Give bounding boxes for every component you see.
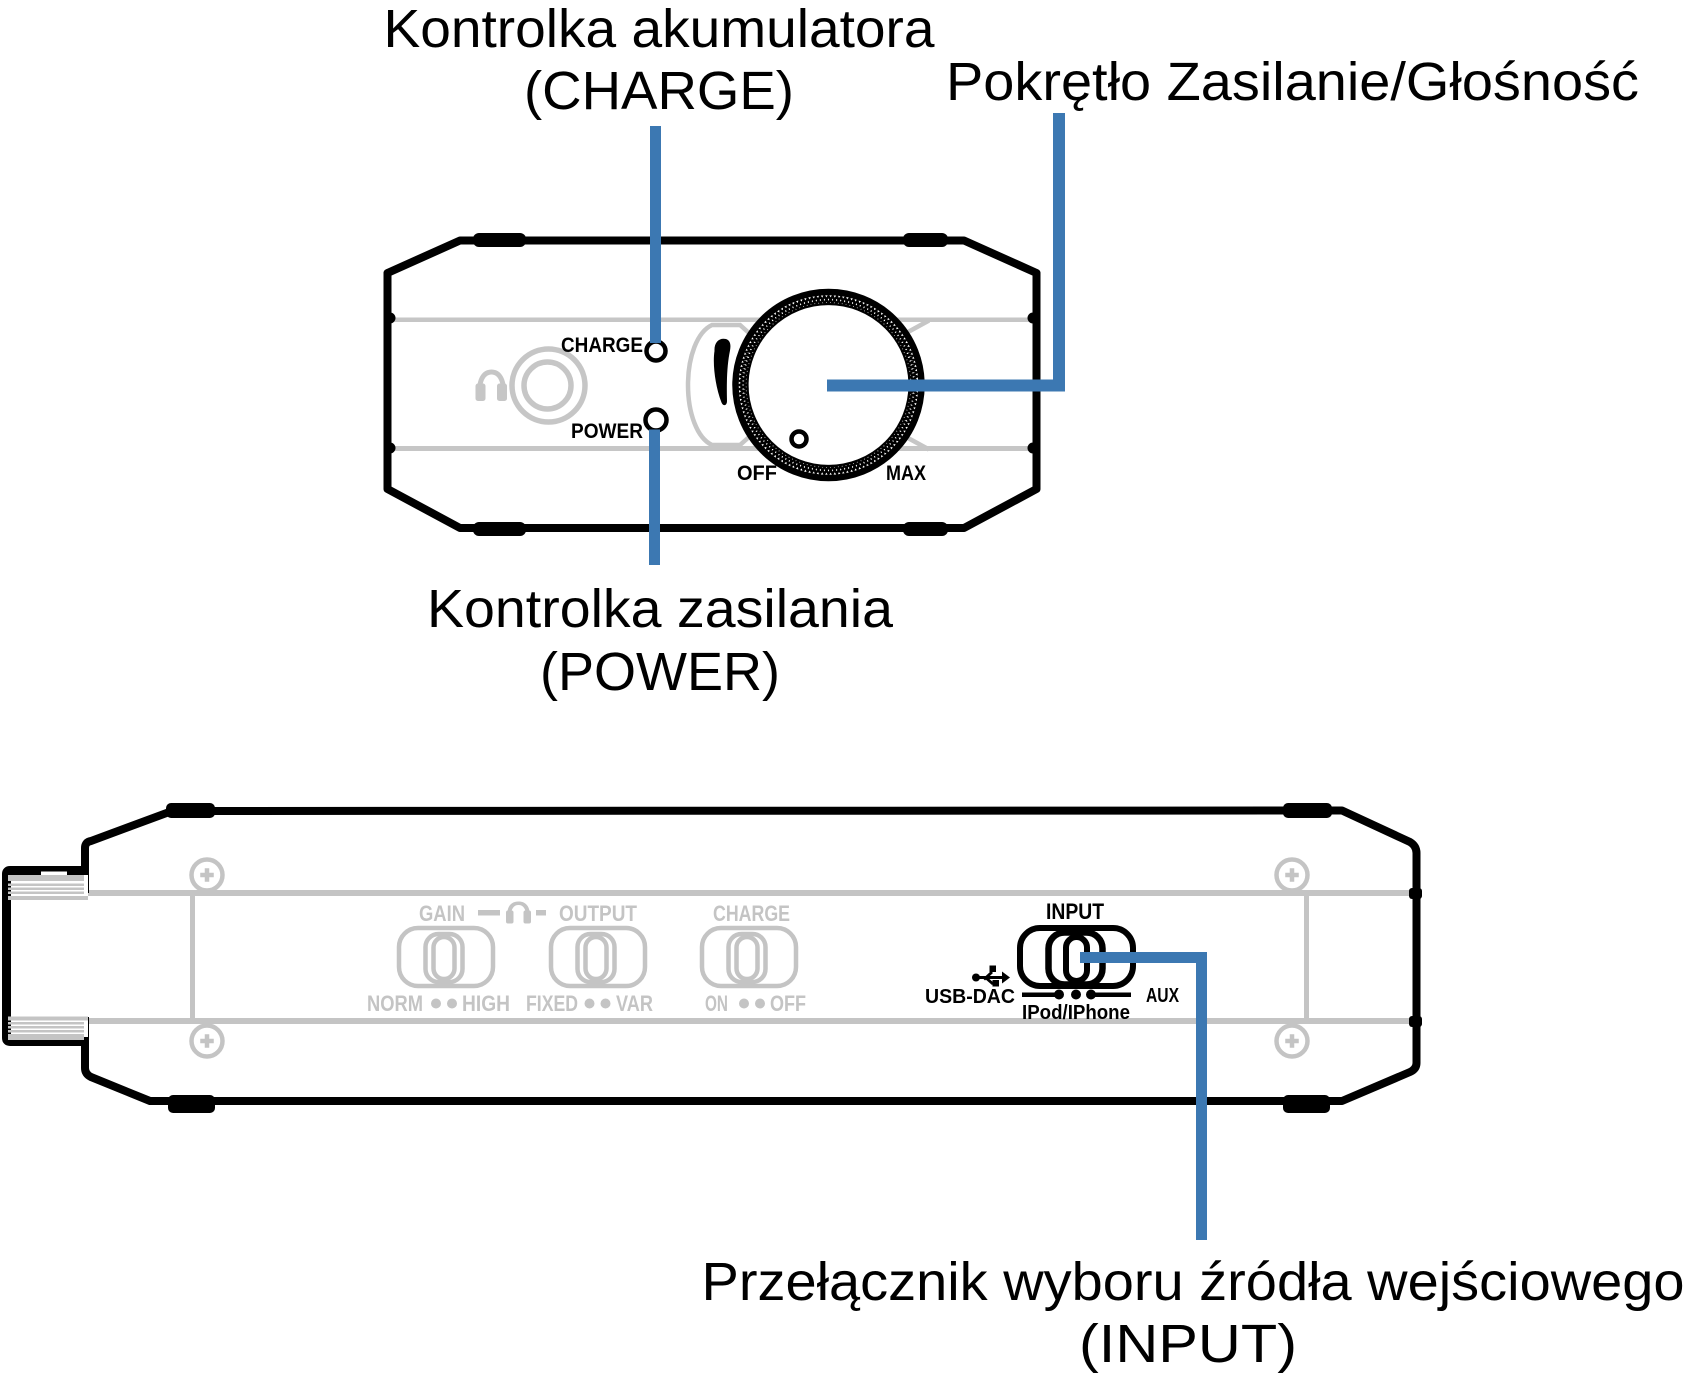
bumper tab bottom-left [473,522,526,536]
svg-text:ON: ON [705,991,728,1016]
svg-text:CHARGE: CHARGE [713,901,790,926]
callout line POWER [649,430,660,566]
callout line INPUT (L-shape) [1080,958,1202,1241]
position dots gray [431,999,765,1009]
label: Kontrolka akumulatora (CHARGE) [384,0,936,121]
svg-text:VAR: VAR [616,991,653,1016]
callout line CHARGE [650,126,661,343]
small headphone icon [506,902,531,924]
svg-text:(INPUT): (INPUT) [1079,1314,1297,1374]
POWER LED [646,410,667,431]
screw crosses [200,868,1299,1048]
edge nub left bottom [385,443,396,454]
face line top [390,318,1033,323]
edge nub left top [385,313,396,324]
svg-text:CHARGE: CHARGE [561,334,643,357]
knob knurl inner edge [748,304,910,466]
headphone jack inner circle [524,362,571,409]
input position dashes [1022,990,1131,1000]
edge nub right top [1028,313,1039,324]
svg-text:NORM: NORM [367,991,423,1016]
callout line knob (L-shape) [827,113,1059,386]
bumper tab bottom-right [903,522,948,536]
svg-text:GAIN: GAIN [419,901,465,926]
bumper tab bottom-left [168,1095,215,1113]
screws (4x phillips) [192,860,1308,1057]
bumper tab top-right [903,233,948,247]
seam right [1304,896,1309,1018]
svg-text:MAX: MAX [886,462,926,485]
svg-text:FIXED: FIXED [526,991,578,1016]
face line bottom [390,446,1033,451]
gray positions labels row [367,991,806,1016]
edge nub right top [1409,888,1422,899]
svg-text:Przełącznik wyboru źródła wejś: Przełącznik wyboru źródła wejściowego [702,1252,1685,1312]
label: Kontrolka zasilania (POWER) [427,579,894,702]
edge nub right bottom [1409,1016,1422,1027]
volume wedge indicator [714,339,731,405]
face line bottom [86,1018,1416,1024]
CHARGE LED [647,342,666,361]
bumper tab bottom-right [1283,1095,1330,1113]
gray switch labels row [419,901,790,926]
svg-text:OFF: OFF [770,991,806,1016]
dash right of headphone icon [536,910,546,916]
device outline octagon [388,241,1037,529]
GAIN switch [399,928,493,986]
knob outer ring [736,292,922,478]
svg-text:Pokrętło Zasilanie/Głośność: Pokrętło Zasilanie/Głośność [946,52,1639,112]
lower device outline [85,811,1417,1102]
edge nub right bottom [1028,443,1039,454]
knob recess (gray) [688,325,749,445]
svg-text:HIGH: HIGH [462,991,510,1016]
svg-text:OFF: OFF [737,462,777,485]
svg-text:USB-DAC: USB-DAC [925,986,1015,1008]
svg-text:(POWER): (POWER) [540,642,780,702]
dash left of headphone icon [478,910,500,916]
INPUT switch [1020,928,1133,986]
svg-text:Kontrolka akumulatora: Kontrolka akumulatora [384,0,936,59]
knob indicator dot [792,432,807,447]
bumper tab top-left [166,803,215,818]
headphone icon [476,370,508,402]
headphone jack outer circle [512,349,585,422]
svg-text:AUX: AUX [1146,985,1180,1007]
bumper tab top-right [1283,803,1332,818]
upper device group [385,233,1039,536]
label: Przelacznik wyboru zrodla wejsciowego (INPUT) [702,1252,1685,1374]
CHARGE switch [702,928,796,986]
redraw face lines over screws [86,890,1416,896]
knob face [733,289,925,481]
knob knurl [740,296,918,474]
svg-text:IPod/IPhone: IPod/IPhone [1022,1002,1130,1024]
OUTPUT switch [551,928,645,986]
svg-text:OUTPUT: OUTPUT [559,901,637,926]
lower device group [7,803,1423,1113]
svg-text:INPUT: INPUT [1046,899,1104,924]
svg-text:(CHARGE): (CHARGE) [524,61,794,121]
bumper tab top-left [473,233,526,247]
USB icon [972,966,1010,987]
plug connector [7,871,89,1042]
face line top [86,890,1416,896]
svg-text:POWER: POWER [571,420,643,443]
svg-text:Kontrolka zasilania: Kontrolka zasilania [427,579,894,639]
seam left [190,896,195,1018]
